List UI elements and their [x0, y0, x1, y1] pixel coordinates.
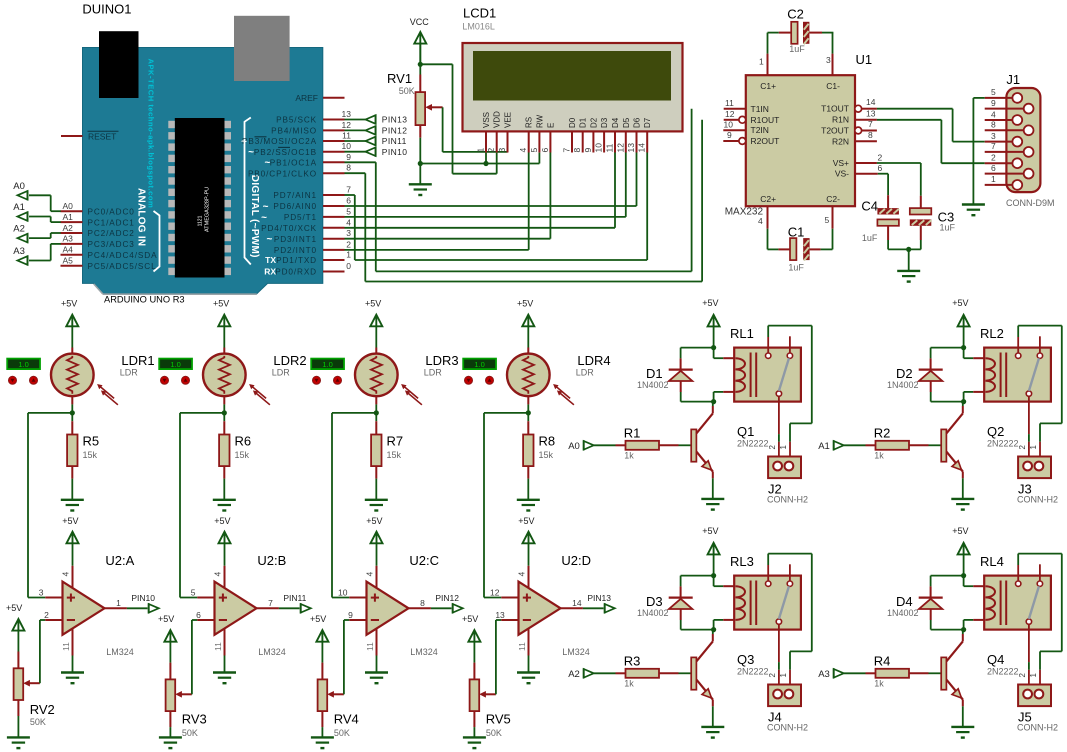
wire +5V to RV2 — [17, 631, 19, 669]
svg-text:10: 10 — [342, 141, 352, 151]
diode D1 1N4002 — [637, 366, 693, 390]
svg-text:R3: R3 — [624, 654, 641, 669]
power +5V (above LDR2) — [213, 298, 230, 326]
terminal A0 (left) — [13, 181, 27, 201]
wire VSS row to LCD pin1 and RW — [420, 153, 539, 164]
svg-text:2: 2 — [486, 148, 496, 153]
svg-text:U2:B: U2:B — [257, 553, 286, 568]
svg-text:Q2: Q2 — [987, 424, 1004, 439]
svg-text:1: 1 — [476, 148, 486, 153]
svg-text:LDR: LDR — [272, 368, 291, 378]
resistor R2 1k — [874, 426, 909, 461]
wire pin3 to LCD E — [345, 153, 551, 239]
wire C2 to pins 1 and 3 — [768, 33, 834, 54]
svg-text:A3: A3 — [63, 234, 74, 244]
svg-text:D1: D1 — [646, 366, 663, 381]
LCD pin 5 (RW) — [529, 114, 545, 152]
wire T1OUT to DB9 pin3 — [877, 109, 985, 142]
LDR LDR3 — [355, 353, 459, 405]
svg-text:1.0: 1.0 — [18, 360, 28, 369]
resistor R4 1k — [874, 654, 909, 689]
J1 pin 6 — [985, 163, 1034, 179]
svg-text:A4: A4 — [63, 245, 74, 255]
U1 pin 10 T2IN — [723, 119, 746, 130]
svg-text:1: 1 — [779, 673, 788, 678]
svg-text:2: 2 — [1018, 673, 1027, 678]
svg-text:ARDUINO UNO R3: ARDUINO UNO R3 — [104, 295, 185, 305]
node divider junction LDR1 — [70, 410, 75, 415]
wire relay common to J2 pin 2 — [778, 434, 780, 461]
ground under Q2 — [951, 499, 974, 510]
svg-text:T1IN: T1IN — [751, 104, 769, 114]
svg-text:DUINO1: DUINO1 — [82, 2, 131, 17]
svg-text:RESET: RESET — [88, 132, 116, 142]
value display box for LDR3 — [311, 359, 344, 370]
svg-text:RL3: RL3 — [730, 554, 754, 569]
svg-text:ANALOG IN: ANALOG IN — [136, 188, 147, 246]
LCD pin 9 (D2) — [583, 117, 599, 152]
svg-text:4: 4 — [518, 148, 528, 153]
svg-text:A5: A5 — [63, 256, 74, 266]
svg-text:PD2/INT0: PD2/INT0 — [274, 246, 317, 255]
svg-text:1: 1 — [779, 445, 788, 450]
wire collector to node — [712, 630, 714, 642]
J1 pin 1 — [985, 174, 1022, 190]
wire LDR2 to divider node — [223, 396, 225, 413]
LCD pin 13 (D6) — [626, 117, 642, 152]
wire node to coil pins — [964, 348, 985, 402]
svg-text:RX: RX — [264, 267, 276, 277]
wire +5V to U2:C pin 4 — [376, 543, 378, 590]
svg-text:6: 6 — [196, 610, 201, 620]
svg-text:AREF: AREF — [295, 93, 318, 103]
svg-text:R6: R6 — [235, 434, 252, 449]
wire A0 to R1 — [594, 444, 626, 446]
svg-text:15k: 15k — [387, 450, 402, 460]
svg-text:PD5/T1: PD5/T1 — [284, 213, 317, 222]
svg-text:+5V: +5V — [158, 614, 174, 624]
LDR LDR2 — [203, 353, 307, 405]
svg-text:PIN12: PIN12 — [382, 126, 408, 136]
svg-text:R2OUT: R2OUT — [751, 136, 780, 146]
LCD pin 6 (E) — [540, 123, 556, 153]
LCD1 LM016L display — [462, 6, 682, 132]
wire collector to node — [962, 402, 964, 414]
svg-text:C1-: C1- — [826, 81, 840, 91]
wire pin5 to LCD D5 — [345, 153, 626, 217]
terminal A1 (relay input) — [818, 440, 844, 452]
svg-text:1N4002: 1N4002 — [887, 380, 919, 390]
wire +5V to RV4 — [321, 642, 323, 680]
J1 pin 7 — [985, 141, 1034, 157]
svg-text:PB2/SS/OC1B: PB2/SS/OC1B — [254, 148, 317, 157]
svg-text:5: 5 — [529, 148, 539, 153]
wire pin8 to MAX232 R1OUT (via row 281.5) — [345, 120, 703, 282]
wire A3 to R4 — [844, 672, 876, 674]
svg-text:CONN-D9M: CONN-D9M — [1006, 198, 1055, 208]
U1 pin 8 R2N — [855, 130, 877, 141]
svg-text:+5V: +5V — [462, 614, 478, 624]
node divider junction LDR3 — [374, 410, 379, 415]
svg-text:1: 1 — [1029, 673, 1038, 678]
wire +5V to LDR2 — [223, 326, 225, 353]
svg-text:1N4002: 1N4002 — [887, 608, 919, 618]
wire R3 to Q3 base — [659, 672, 691, 674]
svg-text:1: 1 — [1029, 445, 1038, 450]
transistor Q1 2N2222 — [691, 413, 768, 471]
op-amp U2:D LM324 — [517, 553, 591, 657]
Arduino board DUINO1 body — [83, 48, 323, 295]
svg-text:PC0/ADC0: PC0/ADC0 — [88, 207, 135, 216]
terminal PIN10 — [366, 147, 408, 157]
U1 pin 2 VS+ — [855, 152, 883, 163]
svg-text:~: ~ — [241, 136, 247, 147]
wire - input pin 6 — [192, 610, 215, 620]
LDR LDR1 — [51, 353, 155, 405]
svg-text:7: 7 — [868, 119, 873, 129]
svg-text:2: 2 — [346, 239, 351, 249]
J1 pin 3 — [985, 131, 1022, 147]
pin PD4/T0/XCK (digital 4) — [261, 217, 351, 233]
pin PB4/MISO (digital 12) — [271, 120, 351, 136]
power +5V (above RV5) — [462, 614, 480, 642]
pin PC0/ADC0 (A0) — [61, 201, 135, 216]
power +5V (above LDR4) — [517, 298, 534, 326]
svg-text:RW: RW — [535, 114, 544, 128]
svg-text:3: 3 — [826, 55, 831, 65]
svg-text:11: 11 — [725, 98, 734, 108]
wire pin9 to MAX232 T1IN (via row 271.4) — [345, 109, 692, 272]
pin PD7/AIN1 (digital 7) — [273, 185, 351, 201]
ground under U2:C — [365, 673, 388, 684]
wire RV1 wiper to LCD VEE — [443, 107, 508, 152]
wire relay common to J5 pin 2 — [1028, 662, 1030, 689]
svg-text:RV2: RV2 — [30, 702, 55, 717]
resistor R8 15k — [523, 421, 555, 478]
svg-text:6: 6 — [878, 163, 883, 173]
svg-text:LM016L: LM016L — [462, 21, 495, 31]
wire R5 to ground — [71, 479, 73, 500]
wire — [345, 119, 366, 121]
pin PD2/INT0 (digital 2) — [274, 239, 351, 255]
wire output pin 8 — [409, 598, 452, 608]
wire LDR1 to divider node — [71, 396, 73, 413]
svg-text:5: 5 — [346, 206, 351, 216]
wire emitter to ground — [712, 472, 714, 499]
svg-text:PB4/MISO: PB4/MISO — [271, 127, 317, 136]
svg-text:R5: R5 — [83, 434, 100, 449]
capacitor C1 1uF — [778, 225, 820, 273]
svg-text:1uF: 1uF — [862, 233, 878, 243]
svg-text:~: ~ — [248, 147, 254, 158]
svg-text:RV5: RV5 — [486, 711, 511, 726]
node divider junction LDR2 — [222, 410, 227, 415]
svg-text:PIN13: PIN13 — [382, 115, 408, 125]
pin PD3/INT1 (digital 3) — [266, 228, 351, 245]
relay RL4 — [980, 554, 1051, 662]
capacitor C4 1uF — [861, 198, 899, 243]
power +5V (above U2:B) — [214, 516, 230, 543]
resistor R5 15k — [67, 421, 99, 478]
svg-text:8: 8 — [420, 598, 425, 608]
svg-text:2: 2 — [878, 152, 883, 162]
wire node to op-amp input — [180, 413, 224, 598]
svg-text:PB1/OC1A: PB1/OC1A — [270, 159, 317, 168]
svg-text:D3: D3 — [646, 594, 663, 609]
svg-text:12: 12 — [725, 109, 735, 119]
node collector junction — [711, 627, 716, 632]
svg-text:15k: 15k — [83, 450, 98, 460]
ground under C3/C4 — [897, 271, 920, 282]
terminal A0 (relay input) — [568, 440, 594, 452]
potentiometer RV4 50K — [318, 679, 359, 738]
svg-text:1.0: 1.0 — [474, 360, 484, 369]
svg-text:A0: A0 — [63, 201, 74, 211]
svg-text:1: 1 — [116, 598, 121, 608]
wire R7 to ground — [375, 479, 377, 500]
wire VS+ to C3 — [877, 163, 921, 208]
svg-text:VDD: VDD — [493, 111, 502, 128]
wire node to R8 — [527, 413, 529, 421]
svg-text:+5V: +5V — [61, 298, 77, 308]
svg-text:LCD1: LCD1 — [463, 6, 496, 21]
svg-text:8: 8 — [868, 130, 873, 140]
svg-text:1.0: 1.0 — [322, 360, 332, 369]
terminal PIN13 (op-amp output) — [587, 593, 614, 613]
svg-text:12: 12 — [615, 143, 625, 153]
svg-text:1uF: 1uF — [789, 44, 805, 54]
svg-text:C2-: C2- — [826, 194, 840, 204]
transistor Q3 2N2222 — [691, 641, 768, 699]
svg-text:R1: R1 — [624, 426, 641, 441]
wire R4 to Q4 base — [909, 672, 941, 674]
terminal PIN11 — [366, 136, 407, 146]
svg-text:RL2: RL2 — [980, 326, 1004, 341]
wire +5V to RV3 — [169, 642, 171, 680]
svg-text:1k: 1k — [624, 679, 634, 689]
svg-text:LDR1: LDR1 — [121, 353, 154, 368]
pin AREF — [295, 93, 344, 103]
ground under RV2 — [7, 737, 30, 748]
svg-text:D1: D1 — [579, 117, 588, 128]
svg-text:10: 10 — [338, 587, 348, 597]
svg-text:A2: A2 — [568, 669, 580, 680]
J1 pin 4 — [985, 109, 1022, 125]
U1 pin 3 C1- — [826, 54, 833, 76]
svg-text:VCC: VCC — [410, 17, 430, 27]
wire + input pin 12 — [484, 587, 519, 597]
wire — [29, 233, 61, 238]
op-amp U2:B LM324 — [213, 553, 287, 657]
svg-text:3: 3 — [346, 228, 351, 238]
terminal PIN12 — [366, 125, 408, 135]
ground under R6 — [213, 500, 236, 511]
svg-text:D0: D0 — [568, 117, 577, 128]
svg-text:5: 5 — [191, 587, 196, 597]
pin PC5/ADC5/SCL (A5) — [61, 256, 157, 271]
svg-text:+5V: +5V — [366, 516, 382, 526]
J1 pin 5 — [985, 87, 1022, 103]
node VCC junction — [418, 62, 423, 67]
svg-text:1121: 1121 — [198, 215, 204, 226]
wire node to R6 — [223, 413, 225, 421]
wire pin2 to LCD RS — [345, 153, 529, 250]
svg-text:14: 14 — [866, 97, 876, 107]
wire A1 to R2 — [844, 444, 876, 446]
svg-text:PC2/ADC2: PC2/ADC2 — [88, 229, 135, 238]
adjust buttons for LDR2 — [161, 376, 190, 384]
svg-text:7: 7 — [562, 148, 572, 153]
wire pin 11 to ground — [528, 629, 530, 673]
pin PC3/ADC3 (A3) — [61, 234, 135, 249]
ground under Q3 — [701, 727, 724, 738]
wire — [29, 244, 61, 261]
svg-text:3: 3 — [497, 148, 507, 153]
wire D4 anode to collector node — [931, 609, 964, 630]
svg-text:~: ~ — [266, 234, 272, 245]
svg-text:2: 2 — [44, 610, 49, 620]
svg-text:Q4: Q4 — [987, 652, 1004, 667]
diode D4 1N4002 — [887, 594, 943, 618]
svg-text:+5V: +5V — [310, 614, 326, 624]
wire RV2 wiper to op-amp inverting input — [39, 620, 41, 683]
ground under U2:B — [213, 673, 236, 684]
LCD pin 8 (D1) — [572, 117, 588, 152]
svg-text:PC4/ADC4/SDA: PC4/ADC4/SDA — [88, 251, 158, 260]
wire output pin 7 — [257, 598, 300, 608]
svg-text:Q3: Q3 — [737, 652, 754, 667]
ground under Q1 — [701, 499, 724, 510]
wire +5V to coil node — [963, 554, 965, 575]
svg-text:2N2222: 2N2222 — [737, 438, 769, 448]
svg-text:LDR: LDR — [424, 368, 443, 378]
digital pins bracket — [245, 118, 251, 265]
svg-text:+5V: +5V — [952, 298, 968, 308]
svg-text:6: 6 — [991, 163, 996, 173]
potentiometer RV2 50K — [14, 668, 55, 727]
node coil top junction — [711, 573, 716, 578]
ground under RV3 — [159, 737, 182, 748]
svg-text:R2N: R2N — [832, 136, 849, 146]
svg-text:PD0/RXD: PD0/RXD — [275, 268, 317, 277]
ground under J1 — [962, 205, 985, 216]
wire — [345, 151, 366, 153]
power +5V (above RL4) — [952, 526, 969, 554]
U1 pin 14 T1OUT with bubble — [855, 97, 877, 112]
svg-text:9: 9 — [991, 98, 996, 108]
wire RV5 to ground — [473, 711, 475, 737]
power +5V (above RV2) — [6, 603, 24, 631]
svg-text:PB3/MOSI/OC2A: PB3/MOSI/OC2A — [242, 137, 317, 146]
wire C4/C3 to ground — [888, 240, 921, 271]
potentiometer RV5 50K — [470, 679, 511, 738]
svg-text:R1N: R1N — [832, 115, 849, 125]
wire node to R5 — [71, 413, 73, 421]
svg-text:12: 12 — [342, 120, 352, 130]
ground under R8 — [517, 500, 540, 511]
wire RV5 wiper to op-amp inverting input — [495, 620, 497, 694]
svg-text:5: 5 — [991, 87, 996, 97]
LCD pin 3 (VEE) — [497, 112, 513, 153]
wire node to coil pins — [964, 576, 985, 630]
terminal PIN11 (op-amp output) — [283, 593, 310, 613]
svg-text:50K: 50K — [334, 728, 350, 738]
wire +5V to U2:A pin 4 — [72, 543, 74, 590]
relay RL3 — [730, 554, 801, 662]
capacitor C2 1uF — [779, 6, 822, 54]
svg-text:LM324: LM324 — [410, 647, 438, 657]
svg-text:D5: D5 — [622, 117, 631, 128]
svg-text:U2:C: U2:C — [409, 553, 439, 568]
svg-text:R4: R4 — [874, 654, 891, 669]
svg-text:50K: 50K — [182, 728, 198, 738]
svg-text:+5V: +5V — [518, 516, 534, 526]
svg-text:10: 10 — [724, 119, 734, 129]
svg-text:4: 4 — [365, 572, 375, 577]
node coil top junction — [711, 345, 716, 350]
op-amp U2:A LM324 — [61, 553, 135, 657]
wire RV4 to ground — [321, 711, 323, 737]
terminal PIN13 — [366, 115, 408, 125]
svg-text:2N2222: 2N2222 — [987, 666, 1019, 676]
svg-text:50K: 50K — [486, 728, 502, 738]
LCD pin 10 (D3) — [594, 117, 610, 152]
svg-text:RL1: RL1 — [730, 326, 754, 341]
wire R1 to Q1 base — [659, 444, 691, 446]
connector J5 CONN-H2 — [1017, 673, 1058, 733]
wire - input pin 9 — [344, 610, 367, 620]
svg-text:R8: R8 — [539, 434, 556, 449]
wire node to coil pins — [714, 576, 735, 630]
wire +5V to RV5 — [473, 642, 475, 680]
wire - input pin 13 — [495, 610, 518, 620]
ground under RV4 — [311, 737, 334, 748]
svg-text:C2: C2 — [787, 6, 804, 21]
pin PB2/SS/OC1B (digital 10) — [248, 141, 351, 158]
wire R2 to Q2 base — [909, 444, 941, 446]
svg-text:11: 11 — [365, 642, 375, 651]
svg-text:RV4: RV4 — [334, 711, 359, 726]
svg-text:~: ~ — [261, 212, 267, 223]
svg-text:LM324: LM324 — [562, 647, 590, 657]
svg-text:TX: TX — [265, 255, 276, 265]
U1 pin 13 R1N — [855, 109, 877, 120]
svg-text:C4: C4 — [861, 198, 878, 213]
wire RV1 top — [419, 44, 421, 75]
power +5V (above U2:D) — [518, 516, 534, 543]
svg-text:VEE: VEE — [504, 112, 513, 128]
power +5V (above LDR3) — [365, 298, 382, 326]
svg-text:11: 11 — [61, 642, 71, 651]
terminal A2 (left) — [13, 224, 27, 244]
svg-text:A3: A3 — [818, 669, 830, 680]
svg-text:R2: R2 — [874, 426, 891, 441]
svg-text:PIN10: PIN10 — [382, 147, 408, 157]
svg-text:PIN11: PIN11 — [283, 593, 306, 603]
wire node to D2 cathode — [931, 348, 964, 369]
LCD pin 4 (RS) — [518, 117, 534, 153]
wire output pin 14 — [561, 598, 604, 608]
connector J1 CONN-D9M body — [1006, 72, 1055, 208]
svg-text:U1: U1 — [856, 52, 873, 67]
svg-text:11: 11 — [517, 642, 527, 651]
svg-text:10: 10 — [594, 143, 604, 153]
power +5V (above RL2) — [952, 298, 969, 326]
svg-text:6: 6 — [346, 196, 351, 206]
LCD pin 11 (D4) — [605, 117, 621, 152]
wire node to D1 cathode — [681, 348, 714, 369]
svg-text:9: 9 — [346, 152, 351, 162]
